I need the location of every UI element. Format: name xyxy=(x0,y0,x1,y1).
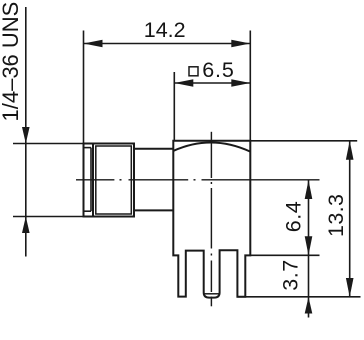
arrowhead thread top xyxy=(22,127,30,144)
svg-text:13.3: 13.3 xyxy=(324,194,348,237)
pin bottom chord xyxy=(204,293,219,295)
neck top line xyxy=(134,148,173,150)
front chamfer lines xyxy=(84,148,92,212)
neck bottom line xyxy=(134,209,173,211)
svg-text:6.5: 6.5 xyxy=(202,58,234,82)
arrowhead 14.2 right xyxy=(231,40,250,48)
horizontal centerline (dash-dot) xyxy=(76,179,320,181)
dimension line 14.2 xyxy=(84,31,251,144)
arrowhead 6.4 bottom / 3.7 top xyxy=(305,236,313,255)
svg-text:14.2: 14.2 xyxy=(144,18,186,42)
arrowhead 3.7 bottom xyxy=(305,297,313,314)
vertical centerline (dash-dot) xyxy=(210,132,212,306)
arrowhead 6.5 left xyxy=(174,79,193,87)
dimension line 6.5 xyxy=(174,72,250,141)
arrowhead 13.3 top xyxy=(346,141,354,160)
dimension line 13.3 xyxy=(237,141,360,297)
arrowhead 14.2 left xyxy=(84,40,103,48)
svg-text:6.4: 6.4 xyxy=(281,201,305,232)
square symbol for 6.5 xyxy=(189,67,198,76)
svg-text:1/4–36 UNS: 1/4–36 UNS xyxy=(0,2,23,122)
svg-text:3.7: 3.7 xyxy=(278,259,302,290)
arrowhead 6.5 right xyxy=(231,79,250,87)
nut inner rect xyxy=(96,146,132,214)
dimension line 6.4 xyxy=(250,180,319,318)
connector front face rect xyxy=(84,144,94,217)
body outline with legs and pin xyxy=(173,141,250,298)
arrowhead 6.4 top xyxy=(305,180,313,199)
arrowhead 13.3 bottom xyxy=(346,278,354,297)
leader line for thread dimension xyxy=(13,7,84,257)
arrowhead thread bottom xyxy=(22,217,30,234)
nut outer rect xyxy=(93,144,134,217)
dome arc on body top xyxy=(174,142,251,151)
